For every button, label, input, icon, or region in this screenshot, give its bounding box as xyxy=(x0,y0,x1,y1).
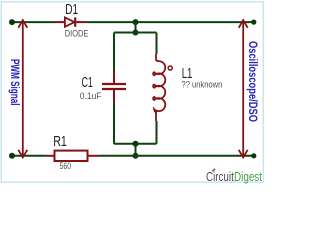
svg-text:0.1uF: 0.1uF xyxy=(80,91,102,101)
junction dot tank bottom xyxy=(133,141,139,147)
svg-text:Oscilloscope/DSO: Oscilloscope/DSO xyxy=(246,41,260,122)
inductor L1 xyxy=(153,54,165,121)
diode D1 xyxy=(65,17,75,26)
node dot top-left xyxy=(9,19,15,25)
wire top right xyxy=(87,21,255,23)
Oscilloscope indicator line xyxy=(239,20,248,157)
wire junction stub bottom xyxy=(135,144,137,156)
junction dot bottom wire xyxy=(133,153,139,159)
node dot top-right xyxy=(251,20,256,25)
wire L1 upper xyxy=(156,33,158,55)
wire bottom right xyxy=(99,155,254,157)
wire C1 lower xyxy=(113,103,115,144)
svg-text:DIODE: DIODE xyxy=(65,29,89,40)
svg-text:Digest: Digest xyxy=(234,169,262,184)
diode D1 lead left xyxy=(55,21,64,23)
junction dot top of tank xyxy=(133,19,139,25)
svg-text:PWM Signal: PWM Signal xyxy=(8,59,21,106)
resistor R1 lead left xyxy=(46,155,55,157)
svg-text:Circuit: Circuit xyxy=(206,169,234,184)
wire C1 upper xyxy=(113,33,115,71)
wire L1 lower xyxy=(156,121,158,144)
resistor R1 lead right xyxy=(88,155,100,157)
svg-text:D1: D1 xyxy=(65,2,78,18)
svg-text:R1: R1 xyxy=(53,134,67,150)
wire bottom left xyxy=(12,155,46,157)
node dot bottom-right xyxy=(251,153,256,158)
PWM signal indicator line xyxy=(18,20,27,157)
node dot bottom-left xyxy=(9,153,15,159)
wire top left (node A) xyxy=(12,21,55,23)
wire tank top xyxy=(114,32,157,34)
svg-text:?? unknown: ?? unknown xyxy=(182,80,223,91)
junction dot tank top xyxy=(133,30,139,36)
svg-text:C1: C1 xyxy=(82,75,93,91)
svg-text:560: 560 xyxy=(60,161,72,172)
diode D1 lead right xyxy=(76,21,86,23)
resistor R1 xyxy=(55,151,88,161)
pin circle L1 xyxy=(168,66,172,70)
CircuitDigest logo xyxy=(206,169,262,184)
wire junction stub xyxy=(135,22,137,32)
wire tank bottom xyxy=(114,143,157,145)
capacitor C1 xyxy=(102,71,126,103)
